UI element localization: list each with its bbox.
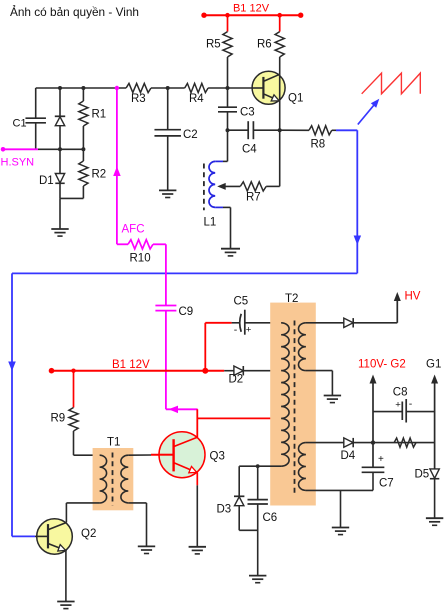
svg-text:L1: L1	[204, 217, 217, 229]
svg-text:+: +	[395, 399, 401, 410]
svg-text:C6: C6	[263, 512, 278, 524]
svg-text:C4: C4	[242, 144, 257, 156]
svg-text:B1 12V: B1 12V	[112, 359, 150, 371]
svg-text:Q2: Q2	[81, 528, 96, 540]
svg-text:C7: C7	[379, 478, 394, 490]
svg-text:R7: R7	[246, 192, 261, 204]
svg-text:+: +	[378, 454, 384, 465]
svg-text:110V- G2: 110V- G2	[358, 359, 406, 371]
svg-text:R5: R5	[206, 39, 221, 51]
svg-text:D5: D5	[415, 469, 430, 481]
svg-text:H.SYN: H.SYN	[1, 157, 35, 169]
svg-text:C2: C2	[183, 129, 198, 141]
svg-text:D3: D3	[217, 504, 232, 516]
svg-text:R10: R10	[130, 253, 151, 265]
svg-text:HV: HV	[405, 291, 421, 303]
svg-text:C9: C9	[179, 306, 194, 318]
svg-text:G1: G1	[426, 359, 441, 371]
svg-text:Q1: Q1	[288, 93, 303, 105]
svg-text:-: -	[409, 398, 413, 410]
svg-text:R4: R4	[189, 93, 204, 105]
svg-text:Q3: Q3	[210, 451, 225, 463]
svg-text:C5: C5	[234, 296, 249, 308]
svg-text:R9: R9	[51, 413, 66, 425]
svg-text:T2: T2	[285, 293, 298, 305]
svg-text:T1: T1	[107, 437, 120, 449]
svg-text:R1: R1	[92, 109, 107, 121]
svg-text:D4: D4	[341, 450, 356, 462]
svg-text:Ảnh có bản quyền - Vinh: Ảnh có bản quyền - Vinh	[10, 5, 139, 19]
svg-text:+: +	[246, 325, 252, 336]
svg-text:D2: D2	[229, 374, 244, 386]
svg-text:B1 12V: B1 12V	[233, 3, 270, 15]
svg-text:-: -	[234, 324, 238, 336]
svg-text:R2: R2	[92, 169, 107, 181]
svg-text:R8: R8	[311, 139, 326, 151]
svg-text:R6: R6	[257, 39, 272, 51]
svg-text:AFC: AFC	[122, 224, 145, 236]
svg-text:C8: C8	[393, 387, 408, 399]
svg-text:D1: D1	[39, 175, 54, 187]
svg-text:R3: R3	[131, 93, 146, 105]
svg-text:C1: C1	[13, 118, 27, 130]
svg-text:C3: C3	[240, 107, 255, 119]
